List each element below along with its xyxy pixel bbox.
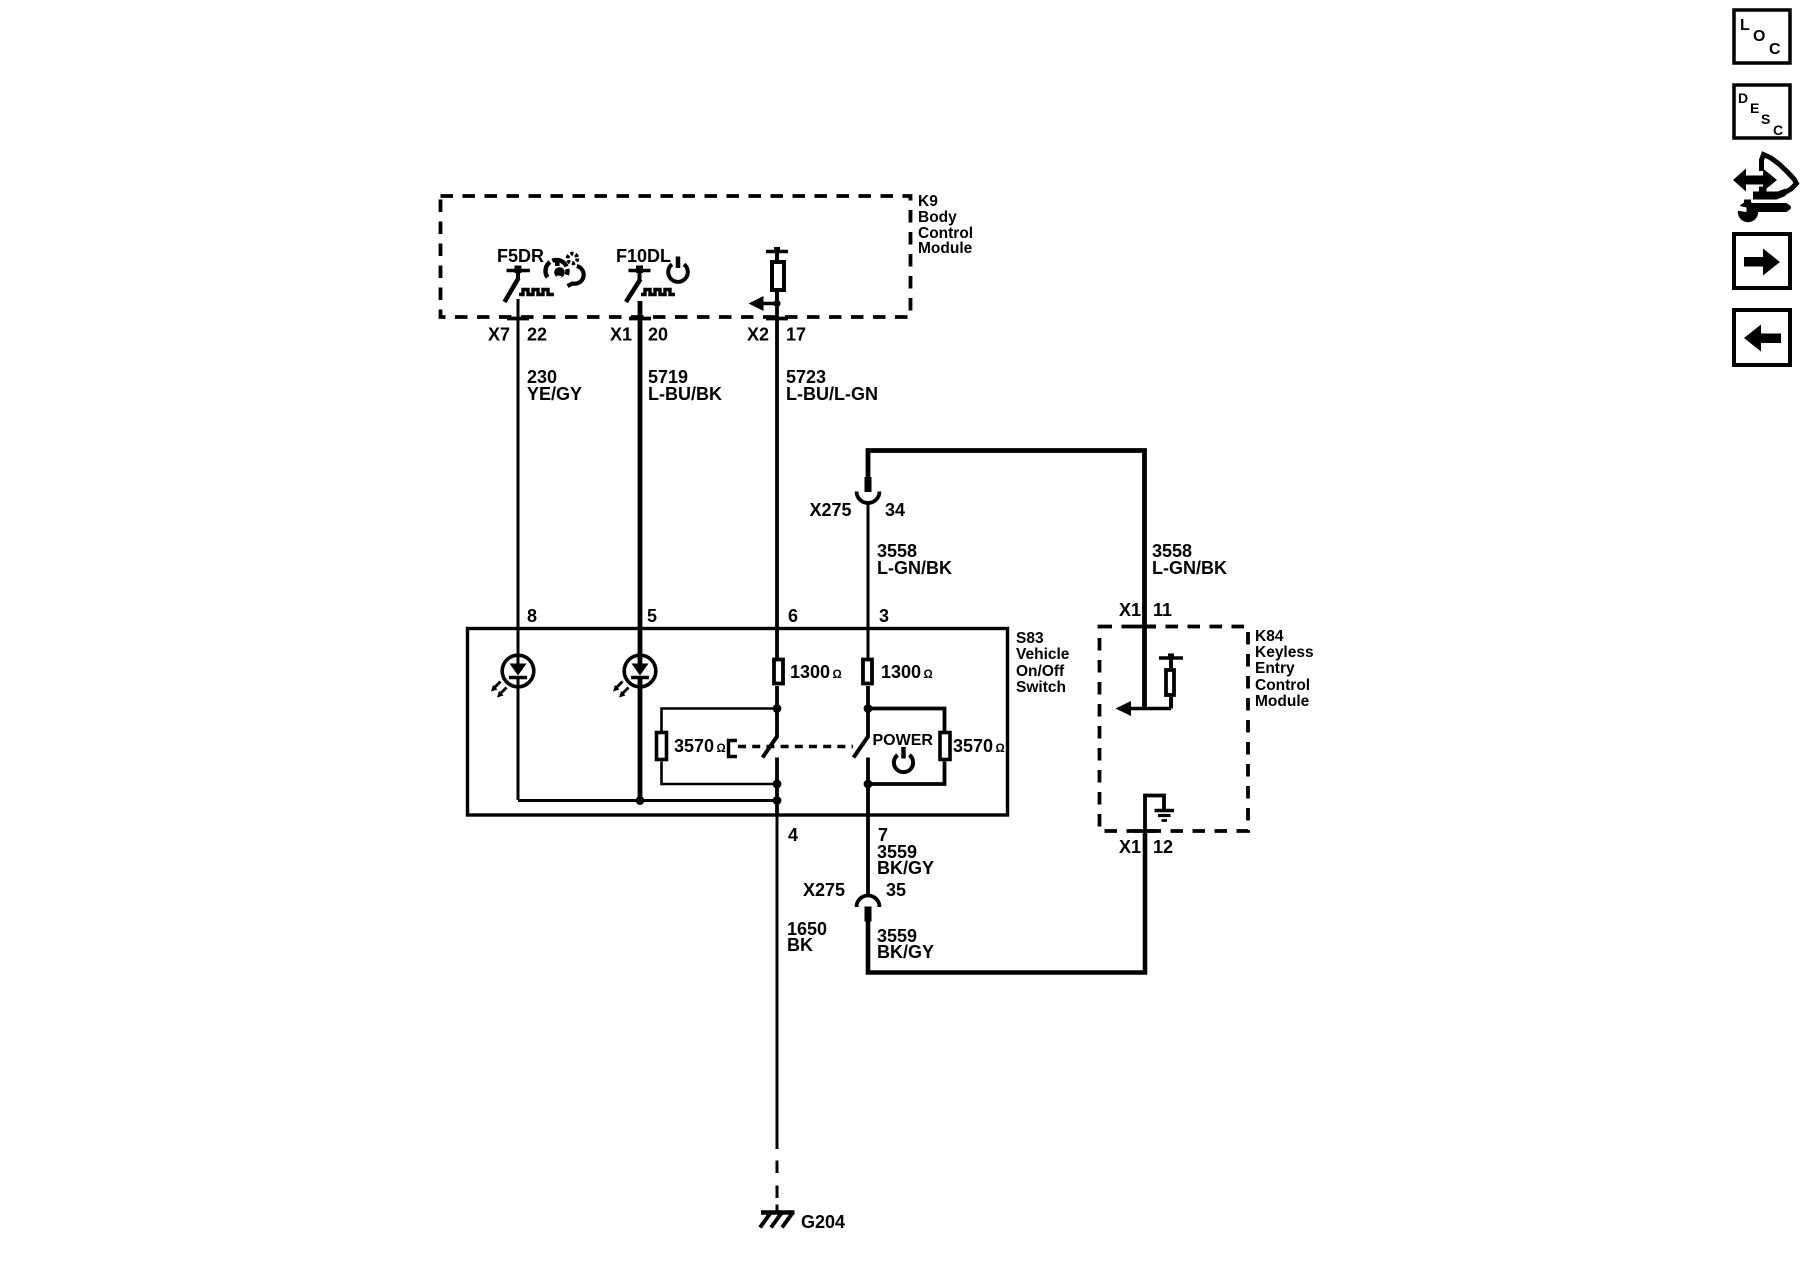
svg-text:X275: X275: [809, 500, 851, 520]
svg-text:S83: S83: [1016, 630, 1044, 647]
reroute/wrench nav icon: [1733, 155, 1797, 223]
resistor inside K9 (X2-17 branch): [766, 247, 788, 304]
wire 3558 L-GN/BK left label: [868, 504, 952, 659]
fuse F10DL (circuit breaker): [616, 246, 675, 302]
resistor 3570 ohm (left): [657, 733, 726, 760]
svg-text:1300Ω: 1300Ω: [790, 662, 842, 682]
wire 3559 BK/GY upper label: [868, 815, 934, 895]
resistor 1300 ohm (pin 3 branch): [863, 660, 933, 684]
LED indicator 2: [613, 655, 656, 697]
wire pin6 resistor to switch 1: [775, 686, 779, 738]
svg-text:F5DR: F5DR: [497, 246, 544, 266]
K84 Keyless Entry Control Module box: [1100, 627, 1249, 832]
mechanical link bracket: [729, 741, 738, 757]
wire 5719 L-BU/BK (F10DL to S83 pin 5): [640, 301, 722, 665]
wire 3559 BK/GY lower run to K84 pin 12: [868, 831, 1145, 973]
POWER power-on icon: [894, 747, 913, 772]
power-on icon: [668, 257, 688, 282]
wire LED1 down: [517, 686, 520, 800]
svg-text:K84: K84: [1255, 628, 1284, 645]
LED return bus wire: [518, 799, 777, 802]
S83 Vehicle On/Off Switch box: [468, 629, 1008, 816]
svg-text:K9: K9: [918, 193, 938, 210]
svg-text:34: 34: [885, 500, 905, 520]
svg-text:L-BU/BK: L-BU/BK: [648, 384, 722, 404]
svg-text:Control: Control: [1255, 677, 1310, 694]
DESC nav box: [1734, 85, 1790, 138]
resistor 1300 ohm (pin 6 branch): [774, 660, 842, 684]
left shunt loop: [662, 709, 778, 785]
svg-text:4: 4: [788, 825, 798, 845]
svg-text:Vehicle: Vehicle: [1016, 646, 1070, 663]
wire 3558 upper run (S83 pin3 to K84 pin11): [868, 451, 1145, 628]
switch blade 1: [763, 737, 778, 758]
arrow (input sense inside K84): [1116, 701, 1172, 716]
connector X275 pin 34: [809, 477, 905, 520]
K84 pin 11 input wire: [1142, 625, 1147, 709]
mechanical link dashed line: [738, 745, 853, 749]
junction node pin6/loop bottom: [773, 780, 782, 789]
svg-text:Body: Body: [918, 209, 957, 226]
LED indicator 1: [491, 655, 534, 697]
svg-text:C: C: [1769, 41, 1781, 58]
svg-text:17: 17: [786, 325, 806, 345]
svg-text:BK/GY: BK/GY: [877, 942, 934, 962]
wire 5723 L-BU/L-GN (K9 X2-17 to S83 pin 6): [777, 303, 878, 658]
svg-text:D: D: [1738, 90, 1748, 106]
svg-text:12: 12: [1153, 837, 1173, 857]
switch 1 lower terminal wire: [775, 758, 779, 817]
fuse F5DR (circuit breaker): [497, 246, 554, 302]
K84 module label: [1255, 628, 1314, 710]
junction node pin6/loop top: [773, 704, 782, 713]
svg-text:L: L: [1740, 17, 1750, 34]
junction node LED2 return: [636, 796, 645, 805]
svg-text:Entry: Entry: [1255, 660, 1295, 677]
svg-text:O: O: [1753, 28, 1765, 45]
svg-text:X7: X7: [488, 325, 510, 345]
svg-text:Keyless: Keyless: [1255, 644, 1314, 661]
svg-text:X1: X1: [1119, 837, 1141, 857]
svg-text:X2: X2: [747, 325, 769, 345]
svg-text:20: 20: [648, 325, 668, 345]
S83 module label: [1016, 630, 1070, 696]
wire 230 YE/GY (F5DR to S83 pin 8): [518, 299, 582, 665]
svg-text:X275: X275: [803, 880, 845, 900]
pin X1 20 label: [610, 325, 668, 345]
svg-text:3: 3: [879, 606, 889, 626]
svg-text:35: 35: [886, 880, 906, 900]
svg-text:X1: X1: [1119, 600, 1141, 620]
svg-text:1300Ω: 1300Ω: [881, 662, 933, 682]
resistor 3570 ohm (right): [940, 733, 1005, 760]
resistor inside K84: [1159, 654, 1183, 709]
arrow (output to X2-17): [749, 296, 781, 311]
svg-text:On/Off: On/Off: [1016, 663, 1065, 680]
junction node return bus: [773, 796, 782, 805]
svg-text:G204: G204: [801, 1212, 845, 1232]
svg-text:5: 5: [647, 606, 657, 626]
pin X7 22 label: [488, 325, 547, 345]
wire pin3 resistor to switch 2: [866, 686, 870, 738]
right shunt loop: [868, 709, 945, 785]
svg-text:F10DL: F10DL: [616, 246, 671, 266]
svg-text:BK: BK: [787, 935, 813, 955]
pin X1 11 label: [1119, 600, 1172, 620]
ground G204: [760, 1212, 845, 1232]
junction node pin3/loop bottom: [864, 780, 873, 789]
connector X275 pin 35: [803, 880, 906, 922]
K9 Body Control Module box: [441, 196, 911, 319]
dashed wire to ground splice: [776, 1161, 779, 1213]
pin X1 12 label: [1119, 837, 1173, 857]
wire 1650 BK (pin 4 to ground): [777, 815, 827, 1149]
svg-text:22: 22: [527, 325, 547, 345]
svg-text:YE/GY: YE/GY: [527, 384, 582, 404]
svg-text:Module: Module: [1255, 693, 1310, 710]
LOC nav box: [1734, 10, 1790, 63]
svg-text:E: E: [1750, 100, 1759, 116]
svg-text:C: C: [1773, 122, 1783, 138]
svg-text:BK/GY: BK/GY: [877, 858, 934, 878]
wire 3558 L-GN/BK right label: [1152, 541, 1227, 578]
svg-text:3570Ω: 3570Ω: [953, 736, 1005, 756]
svg-text:3570Ω: 3570Ω: [674, 736, 726, 756]
svg-text:Switch: Switch: [1016, 679, 1066, 696]
svg-text:6: 6: [788, 606, 798, 626]
next-page arrow box: [1734, 234, 1790, 288]
svg-text:POWER: POWER: [873, 732, 934, 749]
switch 2 lower terminal wire: [866, 758, 870, 817]
svg-text:S: S: [1761, 111, 1770, 127]
junction node pin3/loop top: [864, 704, 873, 713]
svg-text:L-GN/BK: L-GN/BK: [1152, 558, 1227, 578]
K9 module label: [918, 193, 973, 257]
svg-text:Module: Module: [918, 240, 973, 257]
pin X2 17 label: [747, 325, 806, 345]
svg-text:L-BU/L-GN: L-BU/L-GN: [786, 384, 878, 404]
svg-text:8: 8: [527, 606, 537, 626]
svg-text:X1: X1: [610, 325, 632, 345]
svg-text:11: 11: [1153, 600, 1172, 620]
back-page arrow box: [1734, 310, 1790, 365]
gauge icon (driver information): [545, 254, 583, 286]
ground symbol inside K84: [1145, 796, 1174, 832]
switch blade 2 (POWER): [854, 737, 869, 758]
wire LED2 down: [638, 686, 643, 800]
svg-text:L-GN/BK: L-GN/BK: [877, 558, 952, 578]
